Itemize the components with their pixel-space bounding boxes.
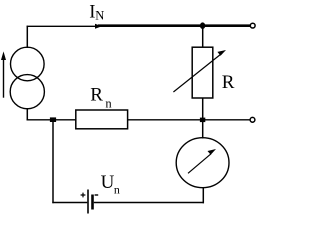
wire: right vertical from R to meter bbox=[202, 98, 204, 139]
battery U_n: short plate bbox=[91, 195, 94, 210]
resistor R body (variable) bbox=[192, 47, 213, 98]
svg-text:N: N bbox=[95, 9, 104, 23]
current source J1: side arrow (upward) bbox=[3, 59, 5, 98]
svg-text:U: U bbox=[101, 172, 115, 193]
wire: meter bottom stub bbox=[202, 188, 204, 204]
svg-text:n: n bbox=[114, 183, 120, 197]
svg-text:R: R bbox=[222, 72, 235, 93]
node: junction square on middle-left wire bbox=[50, 117, 56, 122]
node: junction square on middle-right wire bbox=[200, 118, 205, 123]
wire: left vertical riser bbox=[26, 26, 28, 48]
wire: top horizontal thick segment bbox=[98, 24, 250, 27]
svg-text:n: n bbox=[105, 97, 112, 111]
wire: stub from source bottom bbox=[26, 108, 28, 121]
wire: middle horizontal right segment bbox=[128, 119, 250, 121]
node: junction dot on top wire bbox=[200, 22, 205, 29]
wire: right vertical from top junction to R bbox=[202, 26, 204, 48]
resistor R: variability diagonal arrow bbox=[173, 54, 221, 92]
wire: bottom rail left of battery bbox=[52, 202, 87, 204]
battery U_n: long plate bbox=[87, 190, 89, 214]
wire: bottom rail right of battery bbox=[94, 202, 204, 204]
terminal: right-middle open circle bbox=[250, 117, 255, 122]
battery polarity minus sign bbox=[95, 194, 99, 196]
wire: middle horizontal left segment bbox=[27, 119, 76, 121]
wire: left vertical drop to bottom rail bbox=[52, 120, 54, 203]
meter M1: body circle bbox=[176, 138, 229, 188]
current source J1: upper circle bbox=[11, 47, 45, 81]
battery polarity plus sign bbox=[81, 193, 86, 198]
terminal: top-right open circle bbox=[250, 23, 255, 28]
svg-text:R: R bbox=[90, 85, 103, 106]
resistor R_n body bbox=[76, 110, 128, 129]
current direction arrowhead on top wire (I_N) bbox=[95, 24, 102, 29]
wire: top horizontal thin segment bbox=[27, 25, 96, 27]
meter M1: needle bbox=[188, 154, 211, 174]
current source J1: lower circle bbox=[10, 75, 44, 109]
